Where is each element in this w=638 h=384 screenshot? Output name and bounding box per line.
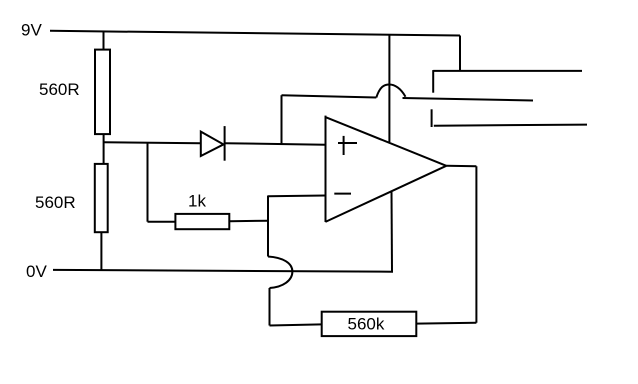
svg-text:9V: 9V <box>21 21 42 40</box>
svg-text:1k: 1k <box>188 192 206 211</box>
svg-text:560R: 560R <box>39 80 80 99</box>
svg-text:560k: 560k <box>348 315 385 334</box>
svg-text:560R: 560R <box>35 193 76 212</box>
svg-text:0V: 0V <box>26 262 47 281</box>
